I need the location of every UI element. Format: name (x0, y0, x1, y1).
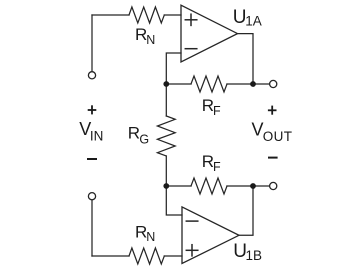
U1A plus sign (185, 14, 197, 25)
label VOUT plus sign (268, 106, 277, 115)
label VIN minus sign (87, 158, 97, 160)
U1A minus sign (185, 48, 197, 50)
wire to output terminal top (253, 83, 269, 85)
junction node bottom-right (250, 183, 256, 189)
svg-text:R: R (128, 124, 140, 143)
wire RF top to output node (227, 83, 253, 85)
terminal circle input - (88, 193, 95, 200)
resistor RF (top) (191, 76, 227, 92)
svg-text:OUT: OUT (263, 129, 293, 144)
resistor RN (bottom) (129, 248, 164, 264)
resistor RG (vertical) (157, 116, 175, 156)
wire U1B inverting input (166, 186, 182, 215)
terminal circle output - (270, 182, 277, 189)
wire node to RF bottom (166, 185, 191, 187)
terminal circle output + (270, 80, 277, 87)
wire bottom horizontal left of RN (92, 255, 129, 257)
wire central vertical lower (165, 156, 167, 186)
U1B minus sign (186, 220, 198, 222)
junction node top-right (250, 81, 256, 87)
svg-text:F: F (213, 160, 221, 174)
svg-text:IN: IN (90, 129, 104, 144)
resistor RF (bottom) (191, 178, 227, 194)
svg-text:N: N (146, 230, 155, 244)
wire U1A inverting input (166, 53, 181, 84)
op-amp U1A (181, 5, 238, 62)
wire U1B output to node (239, 186, 253, 235)
svg-text:G: G (139, 133, 149, 147)
svg-text:N: N (146, 33, 155, 47)
junction node bottom-left (163, 183, 169, 189)
svg-text:1A: 1A (245, 13, 262, 28)
resistor RN (top) (129, 7, 164, 23)
wire to output terminal bottom (253, 185, 269, 187)
op-amp U1B (182, 207, 239, 264)
wire U1A output to node (238, 34, 254, 84)
wire top horizontal left of RN (92, 14, 129, 16)
terminal circle input + (88, 72, 95, 79)
wire RF bottom to output node (227, 185, 253, 187)
wire central vertical upper (165, 84, 167, 116)
label VOUT minus sign (268, 157, 278, 159)
wire node to RF top (166, 83, 191, 85)
U1B plus sign (186, 245, 198, 256)
wire RN bottom to U1B + input (164, 255, 182, 257)
wire RN to U1A + input (164, 14, 181, 16)
svg-text:1B: 1B (246, 248, 263, 263)
wire bottom-left vertical (91, 200, 93, 256)
junction node top-left (163, 81, 169, 87)
svg-text:F: F (213, 104, 221, 118)
wire top-left vertical (91, 15, 93, 71)
label VIN plus sign (88, 105, 97, 114)
